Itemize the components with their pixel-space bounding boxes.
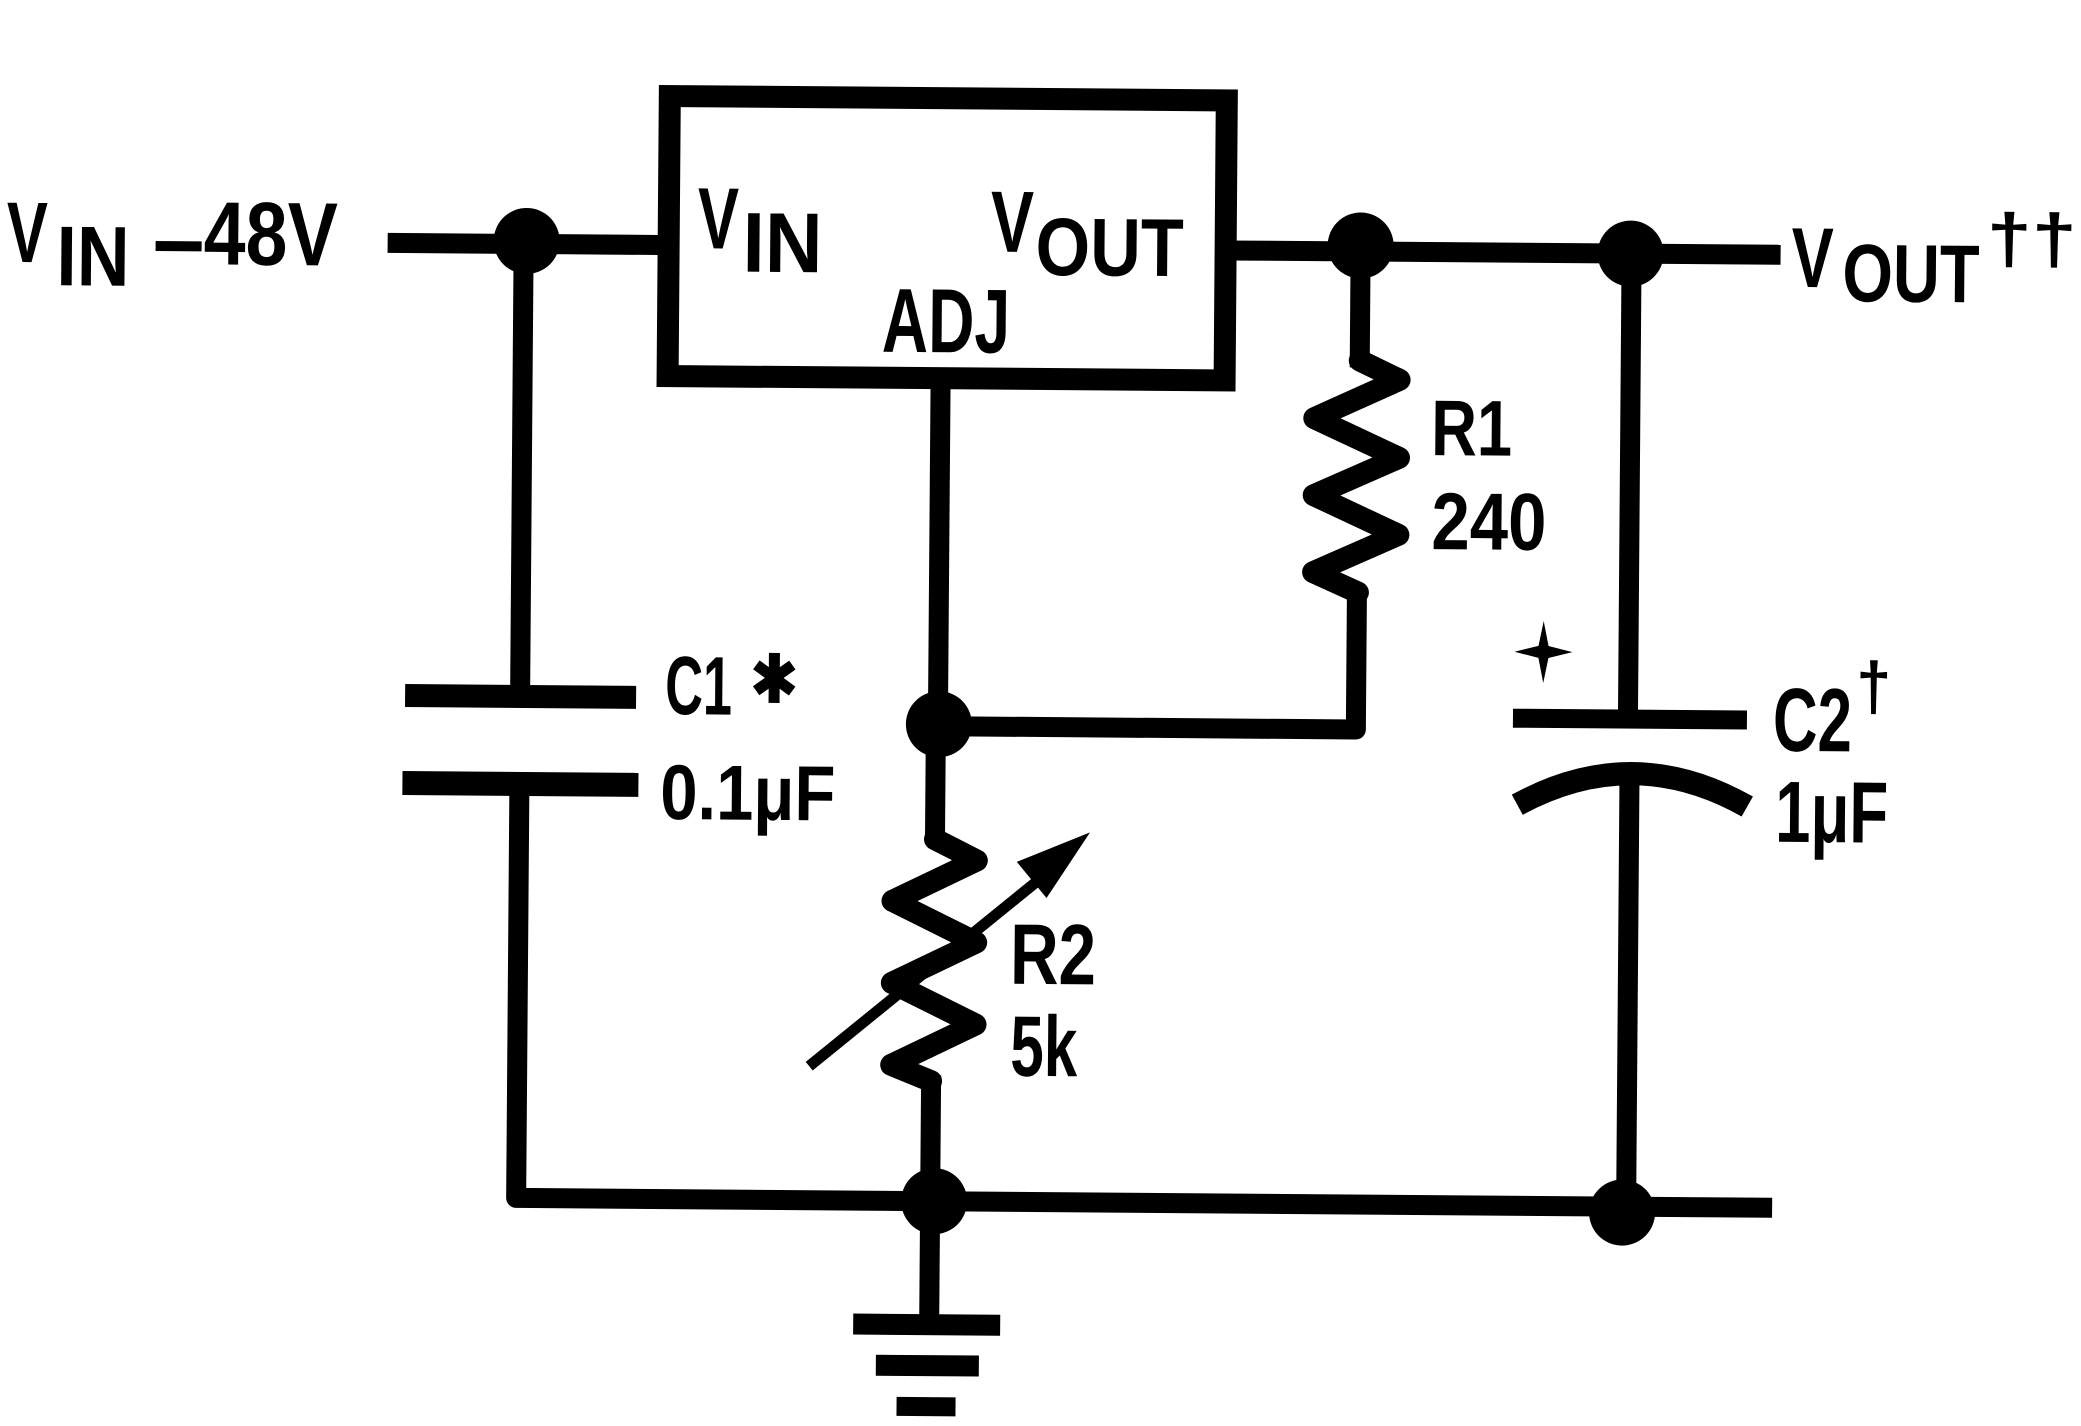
svg-text:V: V <box>990 174 1034 271</box>
wire: ADJ pin lead <box>938 379 941 721</box>
svg-text:OUT: OUT <box>1035 202 1184 294</box>
wire: R2 bottom lead <box>920 1075 941 1201</box>
capacitor C1 bottom plate <box>402 771 638 797</box>
svg-text:†: † <box>1856 648 1892 724</box>
ground symbol bar 2 <box>876 1355 979 1377</box>
wire: ground stem <box>919 1201 940 1319</box>
capacitor C1 top plate <box>405 684 636 709</box>
capacitor C2 straight plate <box>1513 709 1747 730</box>
node: C2 bottom junction dot <box>1589 1179 1656 1246</box>
wire: VOUT lead from regulator to output terminal <box>1226 250 1781 254</box>
resistor R1 zigzag body <box>1313 360 1400 593</box>
wire: R1 bottom lead and link to ADJ node <box>930 584 1357 729</box>
svg-text:OUT: OUT <box>1842 228 1980 320</box>
svg-text:R1: R1 <box>1431 383 1513 473</box>
capacitor C2 curved plate <box>1517 773 1747 807</box>
node: C2 top junction dot <box>1597 220 1664 287</box>
node: ADJ junction dot <box>906 691 973 758</box>
node: ground junction dot <box>901 1168 968 1235</box>
node: VIN junction dot <box>493 208 560 275</box>
pin label VOUT of U1 <box>990 174 1184 295</box>
terminal label VOUT with daggers <box>1791 198 2077 321</box>
svg-text:IN: IN <box>742 196 823 292</box>
label C2 with dagger <box>1773 648 1892 772</box>
ground symbol bar 3 <box>896 1397 955 1416</box>
terminal label VIN -48V <box>6 183 338 307</box>
svg-text:V: V <box>6 185 48 281</box>
svg-text:5k: 5k <box>1010 999 1078 1096</box>
potentiometer R2 zigzag body <box>891 839 977 1082</box>
svg-text:IN: IN <box>56 209 130 305</box>
node: R1 top junction dot <box>1327 212 1394 279</box>
svg-text:240: 240 <box>1431 477 1547 568</box>
label C1* <box>665 639 793 733</box>
regulator U1 box <box>668 96 1227 380</box>
arrow of potentiometer R2 <box>809 830 1090 1068</box>
svg-text:R2: R2 <box>1010 907 1097 1004</box>
wire: R2 top lead <box>925 721 946 844</box>
wire: C2 bottom lead <box>1626 777 1629 1207</box>
wire: R1 top lead <box>1350 252 1371 368</box>
svg-text:V: V <box>697 170 739 267</box>
polarity plus mark of C2 <box>1514 621 1572 683</box>
svg-text:ADJ: ADJ <box>882 271 1011 373</box>
svg-text:C2: C2 <box>1773 671 1853 772</box>
wire: C2 top lead <box>1628 254 1632 720</box>
svg-text:1μF: 1μF <box>1775 764 1889 862</box>
ground symbol bar 1 <box>853 1314 1000 1336</box>
svg-text:††: †† <box>1986 199 2077 278</box>
wire: C1 bottom lead and bottom rail <box>516 786 1775 1208</box>
wire: C1 top branch from VIN node <box>520 244 524 696</box>
svg-text:V: V <box>1791 211 1834 306</box>
pin label VIN of U1 <box>697 170 823 291</box>
svg-text:48V: 48V <box>203 184 338 285</box>
svg-text:0.1μF: 0.1μF <box>660 748 836 837</box>
svg-text:C1: C1 <box>665 639 733 733</box>
wire: input lead from VIN terminal to regulator <box>388 243 669 245</box>
